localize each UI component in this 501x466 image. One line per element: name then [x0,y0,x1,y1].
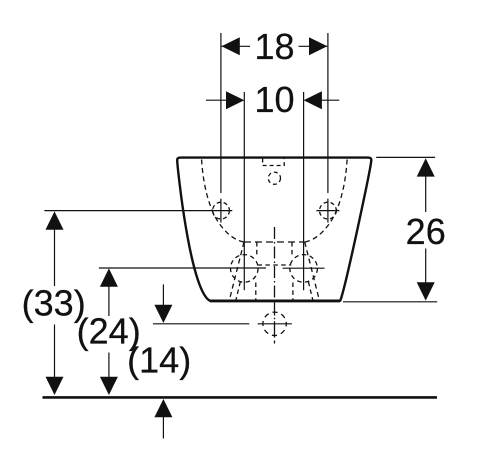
dim 26 top arrowhead [417,158,435,176]
lower-left fixing hole dashed circle [231,255,259,283]
dim 10 right tail [322,99,340,101]
dashed right boss lower-right line [308,282,312,300]
upper-right hole crosshair horizontal [316,210,339,212]
dim 26 upper stem [425,176,427,212]
dim 14 floor up arrowhead [154,399,172,417]
dashed pedestal right side [305,242,320,300]
svg-text:26: 26 [406,211,446,252]
dim 26 bottom leader [343,301,437,303]
dim 10 right arrowhead [304,91,322,109]
dim 18 line left segment [222,45,251,47]
dim 14 floor stem [162,417,164,439]
bidet body outline [177,158,371,301]
dim 26 top leader [376,156,435,158]
dashed pedestal left side [229,242,244,300]
dim 18 right arrowhead [309,37,327,55]
floor line [43,396,438,399]
dim 14 leader left segment [153,323,249,325]
svg-text:10: 10 [254,79,294,120]
upper-left fixing hole dashed circle [213,202,230,219]
dim 18 left extension line [220,33,222,223]
dim 24 upper stem [108,287,110,317]
dim 33 top leader [44,210,232,212]
lower-right hole crosshair horizontal [283,267,325,269]
dashed inner vertical left of center [256,242,258,258]
dashed top notch [263,159,285,166]
dim 33 top arrowhead [46,211,64,229]
dim 18 line right segment [299,45,328,47]
center line (dash-dot upper) [274,227,276,302]
dashed left boss lower-left line [236,282,240,300]
dashed left boss lower-right line [255,283,257,301]
upper-right fixing hole dashed circle [320,202,337,219]
dim 14 down arrowhead [154,305,172,323]
dim 33 lower stem [54,325,56,378]
dim 18 left arrowhead [222,37,240,55]
dashed overflow circle [268,172,280,184]
dashed pedestal top line [244,241,305,243]
dim 33 upper stem [54,230,56,287]
dim 14 upper stem [162,284,164,305]
drain crosshair horizontal [258,323,292,325]
dashed bowl rim curve (left branch) [202,160,244,243]
center line (through drain) [274,303,276,344]
dim 24 top leader [99,267,266,269]
dim 10 left tail [206,99,226,101]
dashed bowl rim curve (right branch) [305,160,347,243]
drain outlet dashed circle [263,312,286,335]
dim 24 lower stem [108,353,110,378]
dim 26 bottom arrowhead [417,282,435,300]
dashed connector between lower holes [258,264,292,266]
dim 10 left extension line [243,92,245,290]
dim 18 right extension line [327,33,329,223]
dim 10 left arrowhead [226,91,244,109]
bidet bottom rim edge [210,300,340,302]
lower-right fixing hole dashed circle [290,255,318,283]
dim 24 top arrowhead [100,268,118,286]
dashed inner vertical right of center [291,242,293,258]
dashed right boss lower-left line [292,283,294,301]
dim 10 right extension line [303,92,305,290]
svg-text:18: 18 [254,26,294,67]
dim 24 bottom arrowhead [100,377,118,395]
dim 26 lower stem [425,249,427,284]
dim 33 bottom arrowhead [46,377,64,395]
svg-text:(14): (14) [127,340,191,381]
